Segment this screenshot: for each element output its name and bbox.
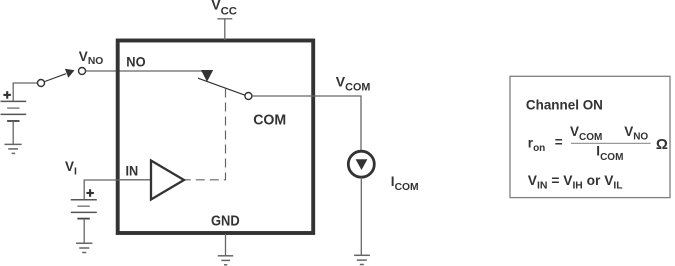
ground (current source) xyxy=(354,255,370,264)
wire V_NO to NO pin xyxy=(86,70,204,72)
switch S1 arrowhead xyxy=(65,69,75,78)
ground (battery B1) xyxy=(5,144,22,153)
svg-text:GND: GND xyxy=(211,214,240,230)
battery B2 plus sign xyxy=(86,189,94,197)
svg-text:=: = xyxy=(555,134,563,149)
svg-text:VNO: VNO xyxy=(624,124,648,143)
wire battery B1 bottom to ground xyxy=(12,121,14,144)
svg-text:VCC: VCC xyxy=(211,0,237,17)
wire battery B2 bottom to ground xyxy=(83,219,85,243)
switch S2 (analog switch) arm xyxy=(198,78,245,95)
svg-text:VNO: VNO xyxy=(79,49,103,67)
IC box U1 xyxy=(118,41,314,234)
formula r_on xyxy=(528,124,668,163)
ground (GND pin) xyxy=(218,256,233,265)
svg-text:ron: ron xyxy=(528,136,545,155)
wire current source to ground xyxy=(360,178,362,256)
battery B2 (V_I source) xyxy=(71,200,97,219)
switch S2 arrowhead at NO contact xyxy=(201,70,213,82)
wire COM pin to current source xyxy=(252,96,361,151)
svg-text:VIN = VIH or VIL: VIN = VIH or VIL xyxy=(528,173,623,192)
switch S1 pole circle xyxy=(38,80,45,87)
svg-text:Channel ON: Channel ON xyxy=(526,96,603,112)
svg-text:ICOM: ICOM xyxy=(391,174,419,193)
wire GND pin to ground xyxy=(225,234,227,256)
current source I_COM xyxy=(348,151,374,177)
svg-text:COM: COM xyxy=(253,113,286,129)
svg-text:VCOM: VCOM xyxy=(336,74,371,94)
ground (battery B2) xyxy=(76,243,92,252)
V_CC supply terminal xyxy=(217,19,232,40)
wire battery B1 top to switch pole xyxy=(13,83,37,101)
svg-text:VCOM: VCOM xyxy=(570,124,602,143)
wire battery B2 top to IN pin xyxy=(84,180,118,200)
svg-text:VI: VI xyxy=(65,159,77,178)
buffer U2 triangle xyxy=(151,161,184,200)
switch S2 COM contact circle xyxy=(245,93,252,100)
switch S1 arm wire xyxy=(45,74,67,82)
buffer U2 input wire xyxy=(118,179,150,181)
battery B1 plus sign xyxy=(3,91,10,99)
svg-text:ICOM: ICOM xyxy=(596,144,623,163)
Channel ON note box xyxy=(510,76,670,197)
battery B1 (V_NO source) xyxy=(1,101,27,121)
dashed control line from buffer to switch xyxy=(185,89,226,180)
node V_NO circle xyxy=(79,68,86,75)
svg-text:NO: NO xyxy=(126,53,145,69)
svg-text:IN: IN xyxy=(126,163,139,179)
svg-text:Ω: Ω xyxy=(656,136,668,153)
